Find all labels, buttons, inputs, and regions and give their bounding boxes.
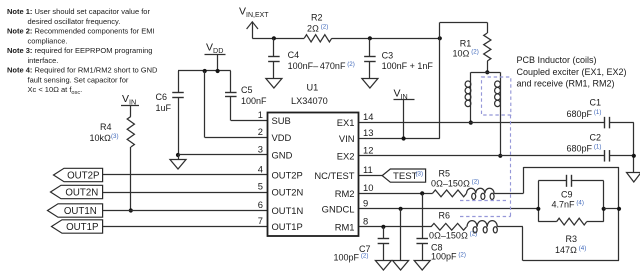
wire EX1 (pin14) [359,122,605,124]
svg-text:C5: C5 [241,85,253,95]
coupling dashed box (coils) [482,77,511,115]
power symbol V_DD [205,42,226,72]
svg-text:U1: U1 [307,83,319,93]
svg-text:100nF– 470nF (2): 100nF– 470nF (2) [288,61,355,71]
wire EX2 (pin12) [359,155,605,157]
svg-text:OUT1N: OUT1N [272,205,304,216]
wire RC box jumper [604,208,619,210]
svg-text:NC/TEST: NC/TEST [314,170,354,181]
svg-text:VDD: VDD [272,132,292,143]
svg-text:OUT2N: OUT2N [272,187,304,198]
note text block [7,7,158,96]
svg-text:100nF + 1nF: 100nF + 1nF [382,61,434,71]
svg-text:9: 9 [363,197,368,208]
pin numbers/names left [258,109,304,232]
ground (C7) [375,261,391,271]
wire C1 to gnd corner [610,123,634,173]
svg-text:100nF: 100nF [241,96,267,106]
svg-text:14: 14 [363,111,373,122]
ground (C8) [414,261,430,271]
wire GNDCL (pin9) [359,208,539,210]
svg-text:1: 1 [258,109,263,120]
svg-text:R6: R6 [439,211,451,221]
svg-text:C6: C6 [156,92,168,102]
node C8 tap junction [420,191,424,195]
svg-text:C2: C2 [590,133,602,143]
svg-text:OUT1P: OUT1P [66,222,98,233]
svg-text:EX2: EX2 [337,150,355,161]
wire pin1 SUB [231,120,268,122]
node C6/GND junction [176,153,180,157]
svg-text:OUT2N: OUT2N [65,187,98,198]
capacitor C6 [156,71,184,155]
net flag OUT2N [51,185,103,198]
svg-text:interface.: interface. [28,56,59,65]
wire VIN riser [359,38,440,138]
wire OUT1P [103,226,268,228]
svg-text:fault sensing. Set capacitor f: fault sensing. Set capacitor for [28,75,129,84]
capacitor C8 [416,193,465,261]
wire top rail [252,38,439,40]
wire pin3 GND [178,154,268,156]
wire OUT1N [103,210,268,212]
node EX2/coil junction [498,154,502,158]
power symbol V_IN,EXT [239,6,269,39]
capacitor C2 [567,133,610,162]
op IC U1 LX34070 box [268,83,359,237]
svg-text:C1: C1 [590,98,602,108]
svg-text:8: 8 [363,215,368,226]
net flag TEST [359,169,426,182]
capacitor C7 [334,227,390,263]
svg-text:11: 11 [363,164,373,175]
node RM join [617,207,621,211]
wire RM1 (pin8) [359,226,432,228]
svg-text:12: 12 [363,144,373,155]
svg-text:RM1: RM1 [335,221,355,232]
node RC box right [602,207,606,211]
wire RM2 (pin10) [359,193,433,195]
wire pin2 VDD [205,71,268,138]
node GNDCL gnd tap [399,207,403,211]
svg-text:Coupled exciter (EX1, EX2): Coupled exciter (EX1, EX2) [517,67,627,77]
svg-text:OUT1P: OUT1P [272,221,303,232]
resistor R3 [555,218,587,255]
node RC box left [536,207,540,211]
wire VDD rail [178,70,231,72]
svg-text:3: 3 [258,144,263,155]
svg-text:compliance.: compliance. [28,36,68,45]
svg-text:5: 5 [258,181,263,192]
ground (C4) [266,79,282,89]
node R4/OUT1N junction [129,208,133,212]
coupling dashed lines [460,115,511,217]
svg-text:C3: C3 [382,51,394,61]
resistor R6 [429,211,477,241]
svg-text:C4: C4 [288,50,300,60]
wire coil top bar [471,72,501,74]
capacitor C1 [567,98,610,129]
svg-text:Note 4: Required for RM1/RM2 s: Note 4: Required for RM1/RM2 short to GN… [7,66,158,75]
capacitor C9 [552,175,584,210]
capacitor C3 [364,38,433,78]
svg-text:PCB Inductor (coils): PCB Inductor (coils) [517,55,597,65]
svg-text:TEST: TEST [393,171,418,182]
node EX1/coil junction [469,121,473,125]
svg-text:R3: R3 [566,234,578,244]
svg-text:VIN: VIN [339,133,355,144]
svg-text:R5: R5 [439,169,451,179]
svg-text:(3): (3) [416,171,424,178]
ground (C6/GND pin) [170,155,186,169]
svg-text:SUB: SUB [272,115,291,126]
wire to R1 [440,22,488,38]
svg-text:10: 10 [363,182,373,193]
wire RM2 route [523,167,619,209]
svg-text:and receive (RM1, RM2): and receive (RM1, RM2) [517,79,615,89]
svg-text:OUT1N: OUT1N [64,206,97,217]
pin numbers/names right [314,111,373,232]
svg-text:GND: GND [272,150,293,161]
ground (C3) [362,79,378,89]
capacitor C4 [268,38,355,78]
capacitor C5 [225,71,267,121]
node VIN tap junction [402,136,406,140]
node VIN riser junction [438,36,442,40]
node C7 tap junction [381,225,385,229]
ground (EX return) [627,173,640,183]
resistor R1 [453,22,491,72]
wire OUT2P [103,174,268,176]
wire RC box [538,181,603,222]
power symbol V_IN (left) [121,93,139,107]
node C4 junction [272,36,276,40]
svg-text:Note 1: User should set capaci: Note 1: User should set capacitor value … [7,7,150,16]
resistor R5 [431,169,479,197]
svg-text:R1: R1 [460,39,472,49]
net flag OUT1N [48,204,103,217]
node VDD-rail junction [203,69,220,73]
svg-text:C9: C9 [561,190,573,200]
svg-text:7: 7 [258,215,263,226]
svg-text:R2: R2 [311,13,323,23]
ground drop (GNDCL) [393,209,409,270]
wire OUT2N [103,192,268,194]
svg-text:LX34070: LX34070 [291,96,328,106]
svg-text:R4: R4 [100,122,112,132]
svg-text:2: 2 [258,126,263,137]
inductor EX coil right [495,72,501,156]
wire C2 to vertical [610,155,634,157]
inductor R5 bead [467,188,524,199]
svg-text:GNDCL: GNDCL [322,203,355,214]
net flag OUT1P [52,220,103,233]
resistor R4 [90,106,135,211]
resistor R2 [304,13,332,42]
svg-text:13: 13 [363,127,373,138]
power symbol V_IN (right) [394,88,415,139]
svg-text:OUT2P: OUT2P [272,170,303,181]
node R1/coils junction [485,70,489,74]
wire RM1 route [523,209,620,261]
svg-text:4: 4 [258,164,263,175]
svg-text:OUT2P: OUT2P [67,170,99,181]
node C3 junction [368,36,372,40]
svg-text:1uF: 1uF [156,103,172,113]
svg-text:EX1: EX1 [337,117,355,128]
PCB inductor annotation [517,55,627,89]
inductor R6 bead [467,221,523,233]
node C2/gnd junction [632,154,636,158]
svg-text:Note 3: required for EEPRPOM p: Note 3: required for EEPRPOM programing [7,46,152,55]
net flag OUT2P [54,168,103,181]
svg-text:desired oscillator frequency.: desired oscillator frequency. [28,17,121,26]
inductor EX coil left [465,72,471,122]
svg-text:RM2: RM2 [335,188,355,199]
svg-text:Note 2: Recommended components: Note 2: Recommended components for EMI [7,27,155,36]
svg-text:6: 6 [258,199,263,210]
